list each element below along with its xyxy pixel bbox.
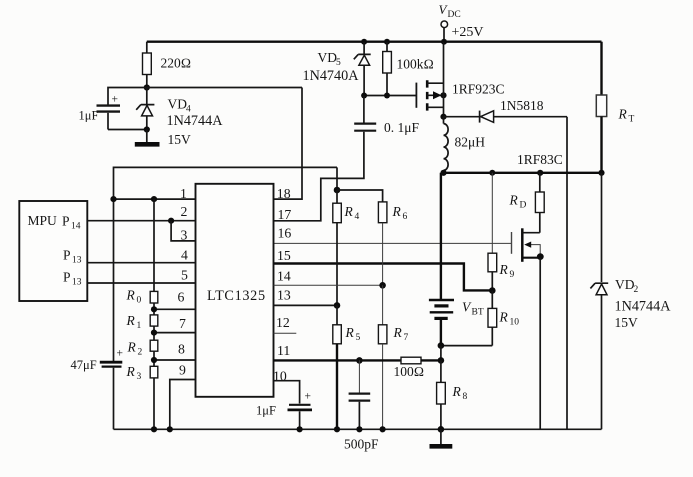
- resistor R6: [378, 202, 407, 285]
- resistor R10: [488, 291, 519, 346]
- svg-text:1N4744A: 1N4744A: [167, 113, 224, 129]
- svg-text:T: T: [629, 115, 635, 125]
- svg-text:3: 3: [181, 227, 188, 242]
- svg-text:5: 5: [336, 58, 341, 68]
- wire pin18 riser: [274, 88, 303, 200]
- svg-text:500pF: 500pF: [344, 437, 379, 452]
- zener diode VD2 1N4744A: [590, 173, 671, 430]
- wire pin11 line: [274, 359, 402, 361]
- svg-text:5: 5: [356, 333, 361, 343]
- svg-text:DC: DC: [448, 10, 461, 20]
- svg-text:4: 4: [181, 248, 188, 263]
- wire node A to 1uF cap: [108, 88, 147, 105]
- svg-text:1N4740A: 1N4740A: [303, 68, 360, 84]
- wire R4 feed corner: [336, 167, 338, 190]
- svg-text:9: 9: [510, 270, 515, 280]
- svg-text:R: R: [126, 288, 136, 303]
- wire pin16 to gate of Q2: [274, 242, 512, 244]
- node battery bottom: [438, 342, 445, 349]
- svg-text:VD: VD: [168, 97, 188, 112]
- capacitor C2 0.1uF: [354, 96, 419, 136]
- svg-text:10: 10: [510, 318, 520, 328]
- resistor R9: [488, 173, 515, 291]
- svg-text:LTC1325: LTC1325: [207, 288, 266, 304]
- svg-text:3: 3: [137, 372, 142, 382]
- wire pin15 to R9/R10 node: [274, 264, 493, 291]
- svg-text:R: R: [392, 204, 402, 219]
- svg-text:100Ω: 100Ω: [394, 364, 425, 379]
- svg-text:R: R: [509, 193, 519, 208]
- svg-text:100kΩ: 100kΩ: [397, 57, 434, 72]
- resistor R3: [126, 364, 158, 429]
- wire 1uF bottom to VD4 bottom: [108, 129, 147, 131]
- wire pin2 line (MPU P14): [88, 220, 196, 222]
- resistor RT: [596, 42, 634, 173]
- wire pin5 line (MPU P13): [88, 282, 196, 284]
- svg-text:7: 7: [404, 333, 409, 343]
- svg-text:16: 16: [278, 225, 292, 240]
- wire pin6 line: [154, 308, 195, 310]
- MPU box: [19, 201, 87, 301]
- wire Q2 source down: [539, 258, 541, 430]
- svg-text:8: 8: [463, 392, 468, 402]
- wire bottom rail: [114, 428, 602, 430]
- svg-text:1μF: 1μF: [256, 404, 276, 418]
- svg-text:7: 7: [179, 316, 186, 331]
- capacitor 1uF (bottom): [256, 391, 312, 430]
- svg-text:13: 13: [277, 287, 291, 302]
- wire pin17 route to 0.1uF: [274, 132, 364, 221]
- svg-text:220Ω: 220Ω: [161, 56, 192, 71]
- svg-text:0. 1μF: 0. 1μF: [384, 120, 419, 135]
- wire R4 top to R6 top: [337, 190, 383, 202]
- svg-text:1RF83C: 1RF83C: [517, 152, 563, 167]
- svg-text:82μH: 82μH: [455, 135, 486, 150]
- svg-text:+: +: [305, 391, 312, 403]
- svg-text:2: 2: [138, 348, 143, 358]
- svg-text:1N5818: 1N5818: [500, 98, 544, 113]
- wire diode output down right column: [566, 117, 568, 430]
- node R4 top: [334, 187, 341, 194]
- wire pin4 line (MPU P13): [88, 262, 196, 264]
- svg-text:BT: BT: [472, 308, 484, 318]
- svg-text:D: D: [520, 201, 527, 211]
- wire node A to pin18 riser: [147, 87, 302, 89]
- svg-text:2: 2: [634, 285, 639, 295]
- pin numbers left: [178, 186, 189, 378]
- transistor Q2 1RF83C (N-MOSFET): [512, 228, 544, 261]
- terminal VDC: [439, 2, 484, 42]
- svg-text:R: R: [452, 384, 462, 399]
- resistor R5: [333, 305, 361, 429]
- pin numbers right: [273, 186, 291, 384]
- inductor L1 82uH: [444, 117, 486, 173]
- svg-text:15V: 15V: [615, 315, 639, 330]
- svg-text:+25V: +25V: [452, 25, 484, 40]
- svg-text:V: V: [462, 300, 472, 315]
- svg-text:47μF: 47μF: [71, 358, 97, 372]
- zener diode VD4 1N4744A: [136, 88, 223, 148]
- svg-text:R: R: [127, 340, 137, 355]
- ground (top-left): [135, 130, 160, 145]
- svg-text:R: R: [393, 325, 403, 340]
- node junction VDC-rail: [441, 39, 447, 45]
- svg-text:13: 13: [72, 256, 82, 266]
- svg-text:1μF: 1μF: [79, 109, 99, 123]
- capacitor 500pF: [344, 360, 379, 451]
- resistor RD: [509, 173, 545, 233]
- svg-text:R: R: [345, 325, 355, 340]
- resistor 100ohm: [394, 357, 441, 379]
- svg-text:11: 11: [277, 343, 290, 358]
- svg-text:15: 15: [277, 248, 291, 263]
- svg-text:8: 8: [178, 341, 185, 356]
- svg-text:MPU: MPU: [28, 213, 58, 228]
- svg-text:R: R: [499, 262, 509, 277]
- svg-text:R: R: [344, 204, 354, 219]
- svg-text:0: 0: [137, 296, 142, 306]
- resistor R7: [378, 285, 408, 429]
- node VD4 bottom: [144, 126, 150, 132]
- ground (main): [430, 429, 453, 446]
- svg-text:14: 14: [71, 222, 81, 232]
- resistor R2: [127, 340, 158, 367]
- zener diode VD5 1N4740A: [303, 39, 371, 96]
- svg-text:15V: 15V: [168, 132, 192, 147]
- resistor R4: [333, 190, 360, 305]
- wire pin9 line: [170, 380, 195, 430]
- diode 1N5818: [444, 98, 568, 123]
- wire pin12 stub: [274, 332, 297, 334]
- wire pin7 line: [154, 332, 195, 334]
- svg-text:+: +: [112, 94, 119, 106]
- svg-text:P: P: [63, 270, 71, 285]
- svg-text:1N4744A: 1N4744A: [615, 299, 672, 315]
- svg-text:R: R: [126, 364, 136, 379]
- svg-text:14: 14: [277, 268, 291, 283]
- svg-text:1RF923C: 1RF923C: [452, 82, 505, 97]
- resistor R0: [126, 288, 158, 315]
- svg-text:R: R: [126, 313, 136, 328]
- capacitor 47uF: [71, 348, 124, 430]
- wire pin3 jog: [171, 221, 195, 241]
- wire gate line y95.5: [364, 95, 416, 97]
- wire drain rail y172.7: [444, 172, 602, 174]
- wire R10 bottom to battery bottom: [441, 345, 492, 347]
- svg-text:+: +: [117, 348, 124, 360]
- wire pin14 line: [274, 284, 383, 286]
- resistor R8: [437, 360, 468, 429]
- svg-text:P: P: [63, 248, 71, 263]
- resistor R1: [126, 313, 158, 340]
- svg-text:P: P: [62, 214, 70, 229]
- resistor R0 chain column: [153, 199, 155, 291]
- svg-text:4: 4: [355, 212, 360, 222]
- svg-text:2: 2: [181, 204, 188, 219]
- svg-text:6: 6: [403, 212, 408, 222]
- capacitor C1 1uF (top-left): [79, 94, 121, 130]
- transistor Q1 1RF923C (P-MOSFET): [416, 42, 504, 117]
- svg-text:1: 1: [180, 186, 187, 201]
- node A (220ohm bottom junction): [144, 84, 150, 90]
- svg-text:R: R: [499, 310, 509, 325]
- wire left rail (top corner to 47uF): [114, 167, 338, 361]
- resistor 220ohm: [143, 42, 192, 88]
- node R9/R10: [489, 287, 496, 294]
- svg-text:VD: VD: [615, 277, 635, 292]
- wire pin8 line: [154, 359, 195, 361]
- svg-text:13: 13: [72, 278, 82, 288]
- svg-text:R: R: [618, 107, 628, 122]
- wire battery bottom down: [440, 346, 442, 361]
- svg-text:5: 5: [181, 267, 188, 282]
- svg-text:VD: VD: [318, 50, 338, 65]
- wire top +25V rail: [147, 41, 602, 43]
- wire pin1 line: [114, 198, 196, 200]
- node inductor top: [440, 114, 446, 120]
- resistor 100kohm: [383, 39, 434, 96]
- wire pin13 line: [274, 304, 338, 306]
- svg-text:12: 12: [276, 315, 290, 330]
- battery VBT: [429, 173, 484, 346]
- svg-text:1: 1: [137, 321, 142, 331]
- svg-text:9: 9: [179, 363, 186, 378]
- IC U1 LTC1325: [196, 184, 274, 397]
- wire pin10 to 1uF: [274, 381, 300, 404]
- svg-text:6: 6: [178, 289, 185, 304]
